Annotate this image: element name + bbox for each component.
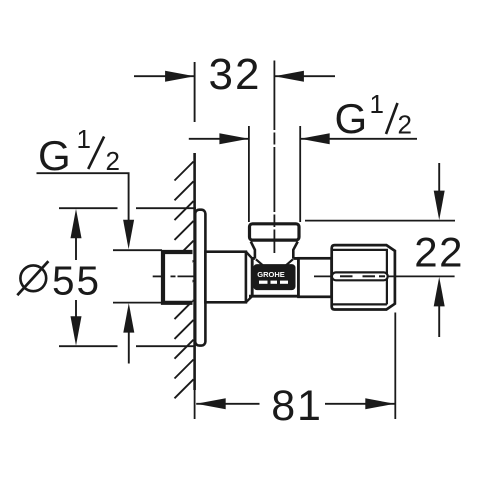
dim 32: dimension line + arrows — [134, 75, 335, 77]
vertical centerline — [273, 61, 275, 254]
G1/2 top: extension lines — [249, 126, 300, 222]
escutcheon flange (side view) — [195, 210, 205, 346]
wall extension line (to 81 dim) — [194, 390, 196, 419]
wall hatching — [175, 162, 194, 399]
svg-text:G: G — [335, 95, 368, 142]
svg-text:22: 22 — [414, 228, 464, 275]
knob groove slot — [332, 272, 388, 280]
svg-text:2: 2 — [106, 146, 120, 176]
outlet nut chamfer — [251, 242, 298, 259]
pipe nipple in wall — [163, 252, 193, 303]
dim 22: arrows — [438, 163, 440, 192]
stem section — [299, 258, 332, 297]
svg-text:1: 1 — [370, 89, 384, 119]
body conical transition diagonals — [256, 259, 265, 267]
chamfer cylinder to body top — [246, 252, 252, 259]
GROHE logo plate — [255, 265, 295, 289]
inlet cylinder section — [205, 252, 246, 303]
svg-text:81: 81 — [271, 382, 322, 430]
dim 22: top extension line — [305, 220, 455, 222]
knob slot centerline dashes — [340, 275, 385, 277]
logo plate lower flecks — [259, 281, 288, 284]
outlet nut cap — [250, 224, 300, 240]
chamfer cylinder to body bottom — [246, 296, 252, 302]
dim 32: extension line at wall — [194, 62, 196, 122]
G1/2 left leader — [37, 173, 129, 221]
horizontal centerline — [153, 275, 455, 277]
svg-text:1: 1 — [77, 124, 91, 154]
svg-text:2: 2 — [398, 110, 412, 140]
wall face line — [193, 153, 196, 390]
G1/2 top: dimension line + arrows — [189, 138, 417, 140]
valve body — [249, 258, 299, 296]
svg-text:G: G — [38, 132, 71, 179]
knob outline — [332, 245, 395, 309]
svg-text:32: 32 — [209, 50, 262, 99]
dim 81: right extension line — [394, 313, 396, 420]
dim 55: text — [20, 265, 46, 291]
G1/2 left: pipe edge extension lines — [113, 250, 162, 302]
svg-text:55: 55 — [52, 257, 101, 303]
dim 81: dimension line + arrows — [196, 403, 395, 405]
G1/2 left: lower arrow — [123, 303, 134, 333]
svg-text:GROHE: GROHE — [257, 270, 285, 279]
dim 55: extension lines — [59, 208, 196, 346]
knob inner silhouette lines — [333, 250, 387, 305]
dim 55: arrows — [71, 209, 82, 239]
